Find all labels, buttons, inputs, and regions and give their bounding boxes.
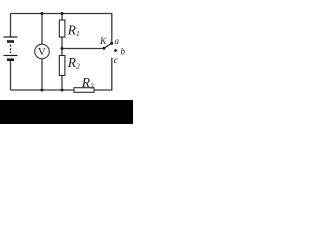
contact a dot <box>110 42 113 45</box>
wire left side (top, above battery) <box>10 14 12 37</box>
wire right side upper (to contact a) <box>111 14 113 44</box>
wire middle tap to switch <box>62 48 104 50</box>
battery cell 2 short plate <box>7 58 14 61</box>
svg-text:b: b <box>121 47 126 57</box>
wire right side lower (from contact c) <box>111 58 113 90</box>
junction dot top rail / R1 <box>61 12 64 15</box>
battery cell 1 short plate <box>7 40 14 43</box>
battery dotted (more cells) <box>10 45 12 53</box>
black band bottom <box>0 100 133 124</box>
wire left side (bottom, below battery) <box>10 61 12 90</box>
battery cell 1 long plate <box>4 36 18 38</box>
resistor R2 box <box>59 56 65 76</box>
switch pivot dot <box>103 47 106 50</box>
svg-text:a: a <box>115 36 120 46</box>
wire voltmeter branch <box>41 14 43 91</box>
wire bottom rail <box>11 89 113 91</box>
junction dot R1-R2 midpoint <box>61 47 64 50</box>
junction dot bottom rail / R2 <box>61 89 64 92</box>
switch K arm <box>104 43 112 48</box>
battery cell 2 long plate <box>4 55 18 57</box>
svg-text:c: c <box>114 55 118 65</box>
resistor R1 box <box>59 20 65 37</box>
svg-text:V: V <box>38 46 46 58</box>
junction dot top rail / voltmeter <box>41 12 44 15</box>
voltmeter V circle <box>35 44 50 59</box>
wire top rail <box>11 13 113 15</box>
contact b dot <box>114 49 117 52</box>
junction dot bottom rail / voltmeter <box>41 89 44 92</box>
resistor R3 box <box>74 88 94 93</box>
wire middle branch (R1,R2) <box>61 14 63 91</box>
svg-text:K: K <box>99 37 107 47</box>
